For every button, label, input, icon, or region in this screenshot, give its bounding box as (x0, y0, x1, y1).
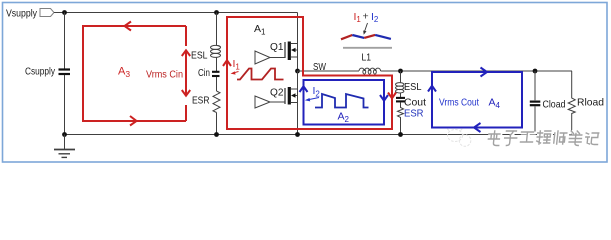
node junction Cout (398, 69, 403, 74)
wire I1 annotation arrow (233, 72, 239, 74)
svg-text:ESR: ESR (404, 108, 424, 120)
node SW junction (295, 69, 300, 74)
svg-text:Vrms Cin: Vrms Cin (146, 70, 183, 81)
node junction bottom-Cin (214, 132, 219, 137)
node junction top-left (62, 10, 67, 15)
svg-text:Q2: Q2 (270, 88, 284, 99)
node I1 waveform (237, 69, 284, 80)
wire ESR to bottom (216, 113, 218, 135)
wire Cin branch top (216, 13, 218, 46)
svg-text:Vsupply: Vsupply (6, 8, 38, 20)
node inductor current waveform (341, 35, 391, 39)
wire waveform pointer arrow (365, 23, 368, 32)
wire SW to L1 (298, 70, 360, 72)
svg-text:Rload: Rload (577, 97, 604, 109)
loop A2 box (300, 80, 389, 125)
watermark text (488, 131, 600, 147)
svg-text:Q1: Q1 (270, 42, 284, 53)
node junction Cload (533, 69, 538, 74)
svg-text:ESL: ESL (191, 50, 208, 62)
svg-text:L1: L1 (362, 52, 372, 64)
svg-text:Cload: Cload (543, 99, 566, 111)
loop A1 hot loop (223, 17, 396, 129)
svg-text:Csupply: Csupply (25, 66, 56, 78)
node junction top-Cin (214, 10, 219, 15)
wire I2 annotation arrow (308, 98, 319, 100)
wire Q2 source to bottom (297, 103, 299, 135)
svg-text:ESL: ESL (404, 81, 422, 93)
wire Q2 drain to SW (297, 71, 299, 89)
svg-text:+: + (363, 11, 369, 23)
wire Q1 source to SW (297, 57, 299, 71)
ground (54, 135, 75, 158)
node junction bottom-left (62, 132, 67, 137)
wire Csupply branch lower (64, 75, 66, 135)
svg-text:Vrms Cout: Vrms Cout (439, 98, 479, 109)
node junction bottom-Cout (398, 132, 403, 137)
wire top rail (54, 12, 298, 14)
svg-text:ESR: ESR (192, 95, 210, 107)
wire waveform baseline (343, 47, 392, 49)
wire L1 to load (381, 70, 572, 72)
wire Cin to ESR (216, 77, 218, 91)
wire Q1 drain drop (297, 13, 299, 44)
wire Csupply branch upper (64, 13, 66, 69)
wire bottom rail (65, 134, 573, 136)
node junction bottom-Q2 (295, 132, 300, 137)
loop A3 input ripple loop (83, 22, 190, 126)
wire Cout branch top (400, 71, 402, 83)
loop A4 output ripple loop (428, 68, 522, 133)
watermark logo (447, 128, 471, 146)
node I2 waveform (315, 94, 369, 108)
svg-text:Cin: Cin (198, 67, 210, 79)
